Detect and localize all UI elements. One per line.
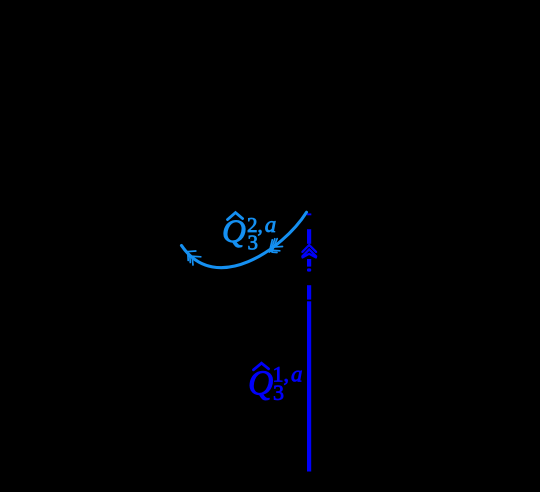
svg-text:Q: Q (222, 214, 246, 250)
svg-text:Q: Q (248, 364, 273, 403)
label Q3^{1,a} hat (254, 363, 269, 370)
label Q3^{2,a} hat (228, 213, 243, 220)
vertical line: chevron arrow (three nested, pointing up) (302, 245, 316, 257)
vertical line Q3^{1,a}: top tiny dash (307, 213, 311, 215)
vertical line: solid lower segment (307, 301, 311, 471)
svg-text:3: 3 (248, 231, 259, 255)
vertical line: dash 3 (307, 259, 311, 267)
arrowhead at left end of curve (feathered, pointing up-left) (186, 251, 201, 265)
arrowhead mid-curve (feathered, pointing down-left) (269, 239, 282, 253)
svg-text:3: 3 (273, 380, 284, 405)
vertical line: dot dash (307, 268, 311, 271)
curve Q3^{2,a} (light blue heteroclinic arc) (182, 212, 307, 267)
vertical line: dash 4 (307, 285, 311, 299)
vertical line: dash 2 (307, 229, 311, 244)
